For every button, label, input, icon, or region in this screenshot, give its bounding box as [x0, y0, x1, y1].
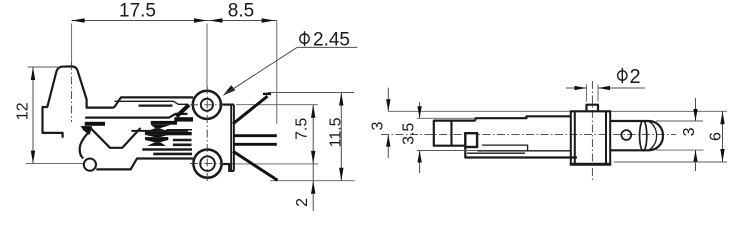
svg-text:7.5: 7.5 — [293, 118, 310, 140]
svg-text:3: 3 — [681, 127, 698, 136]
right view: bushing vertical centerline — [591, 81, 593, 181]
left view: button centerline — [71, 62, 73, 122]
left view: bottom mounting hole outer — [193, 150, 221, 178]
left view: bottom hole horizontal centerline — [190, 163, 224, 165]
dimension 12 left — [14, 67, 84, 164]
right view: threaded bushing block — [570, 111, 572, 164]
left view: terminal plate right edges — [220, 103, 234, 105]
left view: body bottom outline — [96, 159, 193, 170]
left view: coil spring stack — [151, 121, 177, 125]
right view: rear dome inner arc — [648, 121, 657, 150]
svg-text:8.5: 8.5 — [228, 1, 254, 22]
left view: black wedge joint under hole plate — [177, 105, 190, 117]
dimension 6 (bushing height) — [614, 111, 727, 162]
right view: bushing nipple cap — [587, 105, 599, 112]
svg-text:12: 12 — [14, 102, 31, 120]
right view: body top steps — [476, 116, 571, 120]
left view: button left side and lower-left block — [43, 72, 63, 137]
svg-text:3.5: 3.5 — [401, 123, 418, 145]
right view: lower flange — [477, 150, 571, 152]
right view: rear dome rim ellipse — [640, 121, 647, 151]
dimension 17.5 top — [72, 1, 207, 23]
left view: rivet circle — [84, 159, 96, 171]
left view: spring through-rod — [131, 130, 188, 132]
left view: lower body curve to rivet — [80, 132, 90, 159]
left view: switch body outline with button hump — [56, 66, 114, 107]
dimension 7.5 right — [222, 105, 318, 164]
svg-text:17.5: 17.5 — [119, 1, 156, 22]
left view: black contact triangle — [81, 126, 93, 135]
left view: contact laminate right of spring — [167, 129, 192, 131]
right view: plug tip section — [434, 121, 476, 146]
right view: rear hole circle — [621, 130, 631, 140]
dimension 3 (right, rear barrel) — [656, 98, 704, 171]
dimension 2 bottom right — [294, 164, 315, 211]
right view: retainer square — [465, 133, 477, 147]
right view: tip divider — [450, 121, 452, 146]
left view: middle pin 1 — [233, 134, 277, 137]
left view: bracket top edge — [114, 97, 193, 107]
dimension 11.5 right — [268, 93, 355, 181]
svg-text:6: 6 — [708, 132, 725, 141]
left view: top hole horizontal centerline — [190, 104, 224, 106]
svg-text:3: 3 — [370, 121, 387, 130]
left view: housing lower arm edge — [85, 114, 187, 118]
left view: black contact bar under button — [85, 122, 105, 126]
left view: lever bar — [139, 104, 173, 106]
right view: rear barrel section — [610, 121, 663, 150]
dimension 3.5 (body top to flange) — [401, 102, 479, 173]
dimension 3 (left, bushing top to centerline) — [370, 88, 391, 158]
left view: top mounting hole inner — [201, 99, 213, 111]
left view: lower diagonal pin — [233, 151, 278, 180]
right view: horizontal centerline — [381, 134, 676, 136]
right view: inner tray line — [482, 145, 528, 151]
dimension diameter 2 (nipple) — [566, 66, 645, 102]
right view: bushing-top extension line (long) — [388, 110, 571, 112]
svg-text:2: 2 — [294, 198, 311, 207]
svg-text:11.5: 11.5 — [328, 117, 345, 147]
left view: bottom mounting hole inner — [200, 156, 215, 171]
extension line left (button centerline) — [71, 24, 73, 65]
svg-text:2: 2 — [630, 66, 641, 88]
dimension 8.5 top — [207, 1, 277, 23]
left view: funnel lever profile — [90, 128, 141, 148]
extension line right (pin tips) — [276, 21, 278, 125]
leader and label diameter 2.45 — [223, 30, 358, 96]
left view: holes vertical centerline — [206, 86, 208, 182]
svg-text:2.45: 2.45 — [313, 30, 350, 51]
left view: middle pin 2 — [233, 143, 277, 146]
left view: bracket inner edge — [115, 101, 188, 104]
extension line middle (hole centerline) — [206, 24, 208, 88]
left view: top mounting hole outer — [193, 91, 221, 119]
left view: upper diagonal pin — [233, 96, 268, 124]
